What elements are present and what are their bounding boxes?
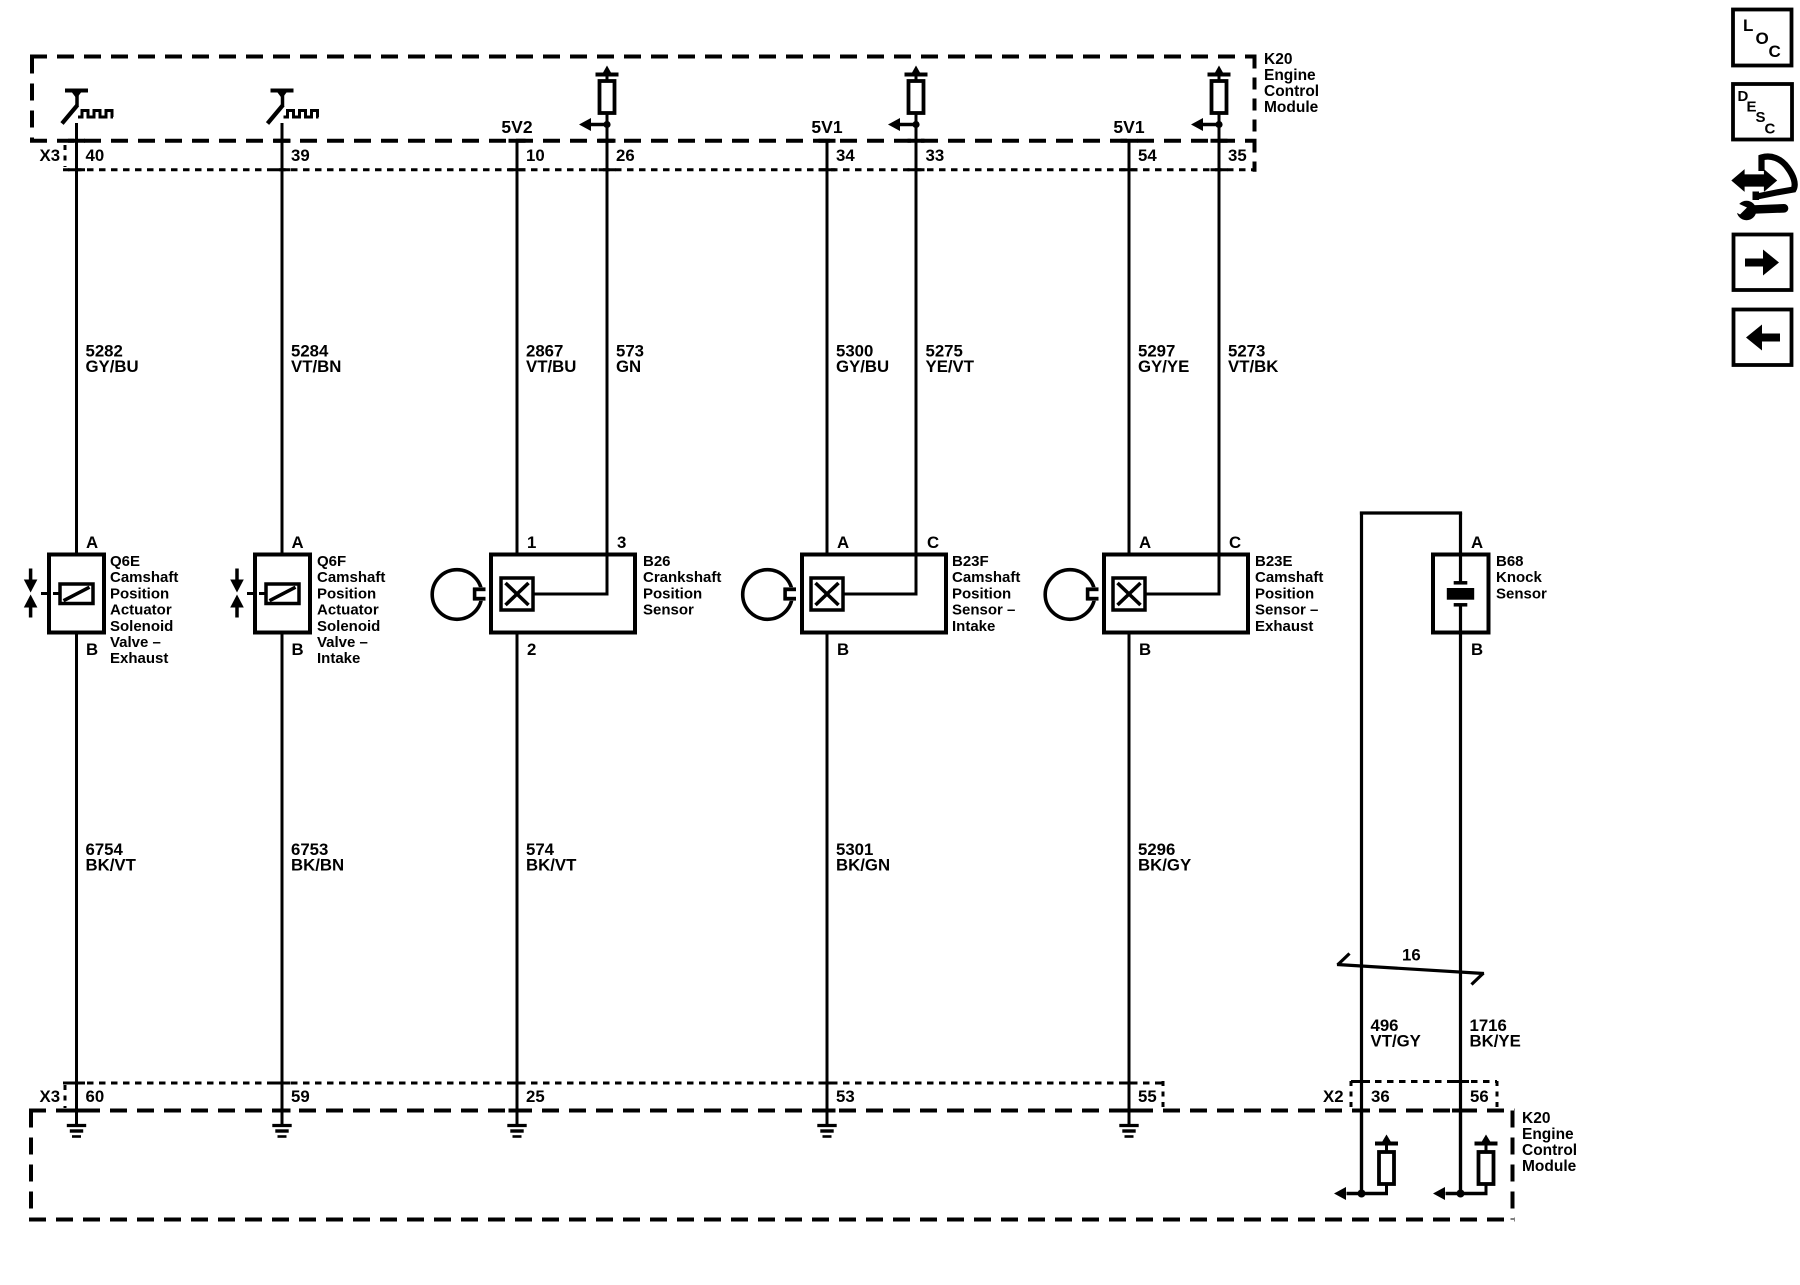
reluctor wheel symbol left of B23F	[743, 570, 799, 620]
svg-text:53: 53	[836, 1087, 855, 1106]
wire 573 GN (pin 26 to B26 3)	[606, 113, 609, 594]
svg-text:Exhaust: Exhaust	[1255, 618, 1313, 635]
DESC navigation icon box	[1733, 84, 1792, 140]
svg-text:35: 35	[1228, 146, 1247, 165]
connector pin ticks (bottom strips)	[68, 1082, 1469, 1111]
solenoid coil element inside Q6E	[53, 584, 93, 604]
Q6E component label	[110, 553, 178, 667]
wire 574 BK/VT (B26 2 to pin 25)	[516, 633, 519, 1125]
svg-text:B26: B26	[643, 553, 671, 570]
svg-text:K20: K20	[1522, 1110, 1550, 1127]
svg-text:Engine: Engine	[1522, 1126, 1574, 1143]
svg-text:C: C	[1765, 121, 1776, 138]
B26 component label	[643, 553, 721, 619]
svg-text:40: 40	[86, 146, 105, 165]
svg-text:Module: Module	[1522, 1158, 1577, 1175]
ground symbol pin 25	[507, 1111, 526, 1137]
connector X3 top dotted strip line	[63, 145, 1253, 170]
svg-text:Valve –: Valve –	[110, 634, 161, 651]
svg-text:BK/GN: BK/GN	[836, 856, 890, 875]
svg-text:A: A	[837, 533, 849, 552]
knock sensor B68 box	[1433, 555, 1489, 633]
svg-text:5V1: 5V1	[1113, 117, 1144, 137]
actuator arrows left of Q6E	[24, 569, 38, 618]
connector pin ticks (top strip)	[68, 141, 1228, 170]
solenoid coil element inside Q6F	[259, 584, 299, 604]
twisted-pair crossover line, circuit 16	[1337, 954, 1484, 985]
ECM K20 bottom dashed box outline	[29, 1111, 1515, 1220]
ground symbol pin 59	[272, 1111, 291, 1137]
svg-text:YE/VT: YE/VT	[926, 357, 975, 376]
svg-text:C: C	[1769, 42, 1781, 61]
resistor + input arrow inside ECM, pin 35	[1191, 66, 1231, 141]
svg-text:36: 36	[1371, 1087, 1390, 1106]
camshaft position sensor B23F box	[802, 555, 946, 633]
piezo element inside B68	[1447, 583, 1474, 605]
svg-text:16: 16	[1402, 946, 1421, 965]
connector X3 bottom dotted strip	[63, 1081, 1163, 1108]
svg-text:Sensor –: Sensor –	[952, 602, 1015, 619]
wire 2867 VT/BU (pin 10 to B26 1)	[516, 139, 519, 555]
svg-text:55: 55	[1138, 1087, 1157, 1106]
svg-text:BK/GY: BK/GY	[1138, 856, 1191, 875]
B23E component label	[1255, 553, 1323, 635]
svg-text:BK/BN: BK/BN	[291, 856, 344, 875]
svg-text:B: B	[1139, 640, 1151, 659]
K20 Engine Control Module label (top right)	[1264, 51, 1319, 116]
svg-text:Module: Module	[1264, 99, 1319, 116]
wire 5284 VT/BN (pin 39 to Q6F A)	[281, 123, 284, 555]
svg-text:B: B	[86, 640, 98, 659]
svg-text:A: A	[1471, 533, 1483, 552]
solenoid valve Q6F box	[255, 555, 310, 633]
svg-text:Crankshaft: Crankshaft	[643, 569, 721, 586]
svg-text:GY/YE: GY/YE	[1138, 357, 1189, 376]
link arrows-to-box Q6F	[247, 592, 256, 595]
resistor + input arrow inside ECM, pin X2-36	[1334, 1111, 1398, 1201]
B68 component label	[1496, 553, 1547, 602]
svg-text:A: A	[86, 533, 98, 552]
svg-text:Valve –: Valve –	[317, 634, 368, 651]
wire 5296 BK/GY (B23E B to pin 55)	[1128, 633, 1131, 1125]
svg-text:VT/BU: VT/BU	[526, 357, 576, 376]
svg-text:B: B	[1471, 640, 1483, 659]
svg-text:BK/VT: BK/VT	[526, 856, 577, 875]
connector X2 dotted strip	[1351, 1081, 1497, 1108]
svg-text:C: C	[1229, 533, 1241, 552]
svg-text:Position: Position	[1255, 585, 1314, 602]
svg-text:B: B	[292, 640, 304, 659]
crankshaft position sensor B26 box	[491, 555, 635, 633]
svg-text:56: 56	[1470, 1087, 1489, 1106]
svg-text:Q6F: Q6F	[317, 553, 346, 570]
svg-text:A: A	[1139, 533, 1151, 552]
svg-text:34: 34	[836, 146, 855, 165]
wire 5301 BK/GN (B23F B to pin 53)	[826, 633, 829, 1125]
svg-text:54: 54	[1138, 146, 1157, 165]
svg-text:Camshaft: Camshaft	[317, 569, 385, 586]
svg-text:Intake: Intake	[952, 618, 995, 635]
svg-text:Actuator: Actuator	[110, 602, 172, 619]
svg-text:2: 2	[527, 640, 536, 659]
svg-text:BK/YE: BK/YE	[1470, 1032, 1521, 1051]
svg-text:Camshaft: Camshaft	[952, 569, 1020, 586]
resistor + input arrow inside ECM, pin X2-56	[1433, 1111, 1498, 1201]
resistor + input arrow inside ECM, pin 26	[579, 66, 619, 141]
back arrow icon box	[1734, 310, 1792, 366]
svg-text:C: C	[927, 533, 939, 552]
svg-text:3: 3	[617, 533, 626, 552]
K20 Engine Control Module label (bottom right)	[1522, 1110, 1577, 1175]
wire 5300 GY/BU (pin 34 to B23F A)	[826, 139, 829, 555]
B23F component label	[952, 553, 1020, 635]
svg-text:25: 25	[526, 1087, 545, 1106]
wire 496 VT/GY (B68 A to pin X2-36)	[1360, 512, 1462, 1194]
svg-text:5V2: 5V2	[501, 117, 532, 137]
svg-text:X3: X3	[40, 1087, 61, 1106]
ground symbol pin 53	[817, 1111, 836, 1137]
svg-text:L: L	[1743, 16, 1753, 35]
svg-text:A: A	[292, 533, 304, 552]
svg-text:1: 1	[527, 533, 536, 552]
wire 5275 YE/VT (pin 33 to B23F C)	[915, 113, 918, 594]
svg-text:Knock: Knock	[1496, 569, 1543, 586]
LOC navigation icon box	[1733, 10, 1792, 66]
ECM low-side driver output symbol, pin 39	[268, 91, 319, 124]
wire 6754 BK/VT (Q6E B to pin 60)	[75, 633, 78, 1125]
svg-text:Position: Position	[317, 585, 376, 602]
reluctor wheel symbol left of B23E	[1045, 570, 1101, 620]
svg-text:Actuator: Actuator	[317, 602, 379, 619]
svg-text:O: O	[1756, 29, 1769, 48]
internal link to right pin at x=916	[843, 593, 918, 596]
ground symbol pin 55	[1119, 1111, 1138, 1137]
svg-text:60: 60	[86, 1087, 105, 1106]
wire 5297 GY/YE (pin 54 to B23E A)	[1128, 139, 1131, 555]
svg-text:26: 26	[616, 146, 635, 165]
svg-text:Control: Control	[1264, 83, 1319, 100]
ECM K20 top dashed box outline	[30, 57, 1257, 172]
reluctor wheel symbol left of B26	[432, 570, 488, 620]
svg-text:Intake: Intake	[317, 650, 360, 667]
svg-text:Sensor –: Sensor –	[1255, 602, 1318, 619]
svg-text:B: B	[837, 640, 849, 659]
svg-text:Camshaft: Camshaft	[1255, 569, 1323, 586]
svg-text:33: 33	[926, 146, 945, 165]
svg-text:X3: X3	[40, 146, 61, 165]
actuator arrows left of Q6F	[230, 569, 244, 618]
svg-text:B68: B68	[1496, 553, 1524, 570]
svg-text:VT/BN: VT/BN	[291, 357, 341, 376]
sensor element (X square) at x=517	[501, 578, 533, 610]
sensor element (X square) at x=1129	[1113, 578, 1145, 610]
svg-text:59: 59	[291, 1087, 310, 1106]
link arrows-to-box Q6E	[41, 592, 50, 595]
internal link to right pin at x=1219	[1145, 593, 1221, 596]
svg-text:Position: Position	[952, 585, 1011, 602]
ECM low-side driver output symbol, pin 40	[62, 91, 113, 124]
forward arrow icon box	[1734, 235, 1792, 291]
svg-text:Position: Position	[643, 585, 702, 602]
svg-text:Exhaust: Exhaust	[110, 650, 168, 667]
svg-text:Camshaft: Camshaft	[110, 569, 178, 586]
svg-text:B23E: B23E	[1255, 553, 1293, 570]
svg-text:Solenoid: Solenoid	[317, 618, 380, 635]
svg-text:GY/BU: GY/BU	[836, 357, 889, 376]
svg-text:10: 10	[526, 146, 545, 165]
wire 6753 BK/BN (Q6F B to pin 59)	[281, 633, 284, 1125]
svg-text:B23F: B23F	[952, 553, 989, 570]
solenoid valve Q6E box	[49, 555, 104, 633]
adjustable-component icon (double arrow, loop, wrench)	[1733, 157, 1795, 221]
svg-text:X2: X2	[1323, 1087, 1344, 1106]
svg-text:Sensor: Sensor	[1496, 585, 1547, 602]
Q6F component label	[317, 553, 385, 667]
svg-text:Sensor: Sensor	[643, 602, 694, 619]
ground symbol pin 60	[67, 1111, 86, 1137]
svg-text:GY/BU: GY/BU	[86, 357, 139, 376]
svg-text:Solenoid: Solenoid	[110, 618, 173, 635]
sensor element (X square) at x=827	[811, 578, 843, 610]
wire 1716 BK/YE (B68 B to pin X2-56)	[1459, 513, 1462, 1194]
svg-text:Control: Control	[1522, 1142, 1577, 1159]
wire 5273 VT/BK (pin 35 to B23E C)	[1218, 113, 1221, 594]
svg-text:Q6E: Q6E	[110, 553, 140, 570]
camshaft position sensor B23E box	[1104, 555, 1248, 633]
svg-text:39: 39	[291, 146, 310, 165]
wire 5282 GY/BU (pin 40 to Q6E A)	[75, 123, 78, 555]
svg-text:Position: Position	[110, 585, 169, 602]
svg-text:GN: GN	[616, 357, 641, 376]
internal link to right pin at x=607	[533, 593, 609, 596]
svg-text:Engine: Engine	[1264, 67, 1316, 84]
svg-text:K20: K20	[1264, 51, 1292, 68]
resistor + input arrow inside ECM, pin 33	[888, 66, 928, 141]
svg-text:VT/GY: VT/GY	[1371, 1032, 1421, 1051]
svg-text:VT/BK: VT/BK	[1228, 357, 1278, 376]
svg-text:BK/VT: BK/VT	[86, 856, 137, 875]
svg-text:5V1: 5V1	[811, 117, 842, 137]
